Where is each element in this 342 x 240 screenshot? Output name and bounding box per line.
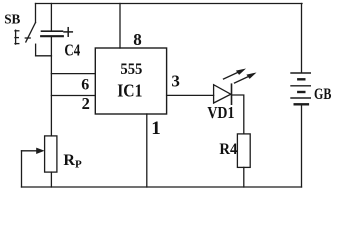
- svg-text:3: 3: [171, 72, 180, 91]
- wire pin 2: [51, 95, 95, 97]
- potentiometer RP: [22, 136, 57, 187]
- wire pin 3: [167, 94, 214, 96]
- svg-text:IC1: IC1: [117, 81, 142, 101]
- svg-text:8: 8: [133, 30, 142, 49]
- svg-text:SB: SB: [4, 12, 20, 27]
- wire LED to R4: [232, 95, 244, 134]
- capacitor C4: [41, 4, 72, 56]
- wire top rail: [36, 3, 303, 5]
- svg-text:C4: C4: [64, 41, 80, 60]
- wire pin 8: [119, 4, 121, 49]
- svg-text:555: 555: [120, 61, 142, 78]
- svg-text:6: 6: [81, 76, 89, 93]
- svg-text:RP: RP: [63, 152, 82, 171]
- wire switch to bus: [36, 55, 52, 57]
- svg-text:VD1: VD1: [207, 103, 234, 122]
- svg-text:1: 1: [151, 118, 161, 139]
- svg-text:2: 2: [82, 94, 90, 113]
- svg-text:R4: R4: [219, 141, 237, 158]
- wire pin 6: [51, 73, 95, 75]
- IC IC1 (555 timer): [95, 48, 166, 114]
- battery GB: [291, 4, 310, 188]
- wire bottom rail: [22, 186, 302, 188]
- svg-text:GB: GB: [314, 86, 332, 103]
- pushbutton switch SB: [15, 4, 36, 56]
- wire left bus: [50, 56, 52, 136]
- wire pin 1: [146, 114, 148, 187]
- LED VD1: [214, 69, 257, 105]
- wire R4 to bottom rail: [243, 167, 245, 187]
- resistor R4: [237, 134, 250, 168]
